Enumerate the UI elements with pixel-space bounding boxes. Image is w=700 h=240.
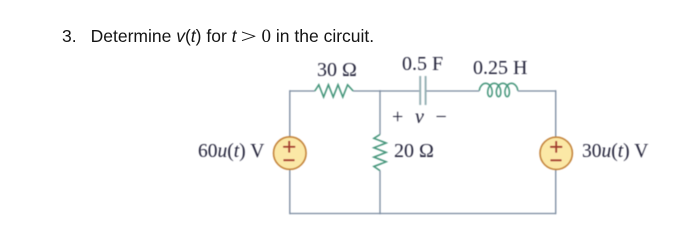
wire middle branch lower [379, 171, 381, 215]
wire middle branch upper [379, 90, 381, 134]
capacitor C 0.5F plates [420, 76, 425, 105]
wire left vertical lower [289, 170, 291, 215]
V1 minus sign [284, 159, 295, 161]
label 0.25 H [473, 57, 527, 80]
wire resistor to capacitor (through node at x380) [353, 90, 419, 92]
label 60u(t) V [198, 141, 264, 163]
wire top-left segment [290, 90, 315, 92]
label 30 ohm [317, 59, 357, 82]
V2 minus sign [551, 159, 562, 161]
voltage source V2 30u(t) circle [540, 137, 572, 169]
resistor R 20ohm vertical [374, 135, 386, 171]
label 20 ohm [394, 140, 434, 163]
wire inductor to top-right corner [518, 90, 556, 92]
label + v - node voltage [392, 106, 447, 129]
wire capacitor to inductor [427, 90, 480, 92]
label 30u(t) V [582, 141, 648, 163]
V2 plus sign [550, 141, 562, 153]
title text [62, 26, 374, 49]
wire right vertical upper [555, 90, 557, 137]
label 0.5 F [402, 53, 443, 76]
inductor L 0.25H [479, 83, 518, 96]
resistor R 30ohm [315, 85, 353, 97]
voltage source V1 60u(t) circle [274, 137, 307, 170]
wire right vertical lower [555, 170, 557, 215]
V1 plus sign [283, 141, 295, 153]
wire bottom [290, 213, 556, 215]
wire left vertical upper [289, 90, 291, 137]
